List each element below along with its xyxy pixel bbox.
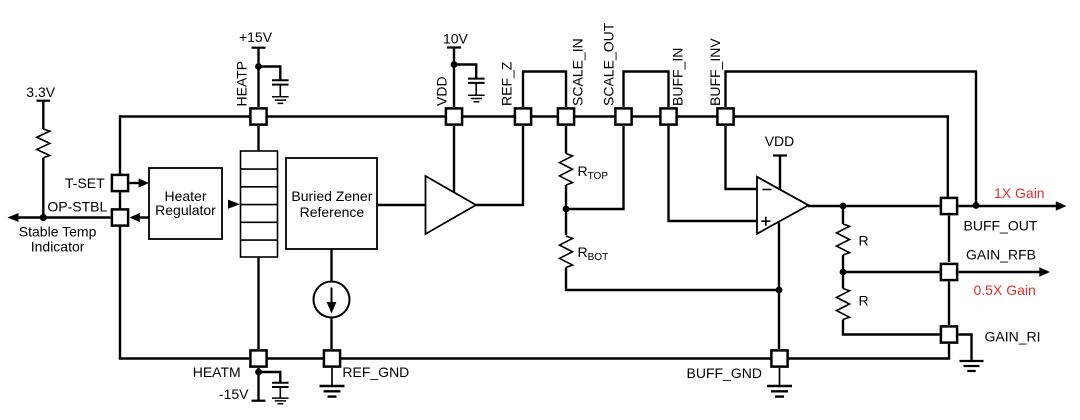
- svg-text:R: R: [859, 233, 869, 249]
- wire right border BUFF_OUT to GAIN_RFB: [948, 216, 950, 263]
- svg-text:HEATM: HEATM: [193, 364, 241, 380]
- ground below BUFF_GND: [767, 368, 792, 397]
- op-amp plus sign: [761, 217, 770, 226]
- heater element (segmented resistor ladder): [241, 151, 278, 257]
- svg-text:R: R: [859, 293, 869, 309]
- capacitor C3 (HEATM bypass): [272, 383, 289, 404]
- svg-text:SCALE_OUT: SCALE_OUT: [601, 22, 617, 106]
- wire REF_Z over to SCALE_IN: [523, 72, 566, 108]
- junction node 10V/C2: [451, 61, 458, 68]
- capacitor C1 (HEATP bypass): [272, 80, 289, 103]
- wire op-amp VDD stub: [779, 156, 781, 192]
- svg-text:-15V: -15V: [219, 386, 249, 402]
- wire IC boundary left border: [119, 115, 121, 358]
- wire right border GAIN_RFB to GAIN_RI: [948, 282, 950, 326]
- svg-text:SCALE_IN: SCALE_IN: [570, 38, 586, 106]
- power symbol 3.3V: [37, 100, 51, 102]
- junction node R1/R2 RFB tap: [840, 269, 847, 276]
- wire SCALE_IN to RTOP: [565, 126, 567, 154]
- resistor R_TOP zigzag: [560, 154, 573, 186]
- wire VDD cap branch: [454, 65, 476, 79]
- pin GAIN_RFB: [941, 264, 957, 280]
- svg-text:1X Gain: 1X Gain: [994, 185, 1045, 201]
- arrow heater regulator into heater element: [228, 200, 240, 209]
- svg-text:GAIN_RI: GAIN_RI: [985, 329, 1041, 345]
- wire current source to REF_GND: [330, 318, 332, 350]
- wire BUFF_INV to op-amp minus input: [726, 126, 758, 189]
- svg-text:10V: 10V: [443, 31, 469, 47]
- svg-text:REF_GND: REF_GND: [342, 364, 409, 380]
- wire RBOT to ground line: [566, 268, 779, 291]
- pin BUFF_INV: [717, 108, 733, 124]
- wire GAIN_RI to ground: [959, 335, 972, 361]
- svg-text:Reference: Reference: [300, 204, 365, 220]
- wire HEATP to heater element: [257, 126, 259, 151]
- wire GAIN_RFB output: [959, 271, 1041, 273]
- svg-text:T-SET: T-SET: [65, 175, 105, 191]
- pin BUFF_GND: [771, 350, 787, 366]
- junction node op-amp output / R1: [840, 203, 847, 210]
- resistor R_BOT zigzag: [560, 236, 573, 267]
- svg-text:BUFF_IN: BUFF_IN: [670, 48, 686, 106]
- junction node 3.3V resistor / OP-STBL line: [40, 214, 47, 221]
- svg-text:BUFF_OUT: BUFF_OUT: [964, 218, 1038, 234]
- wire IC boundary top rail and right drop to BUFF_OUT: [120, 117, 948, 197]
- wire 10V to VDD pin: [453, 48, 455, 108]
- wire VDD pin to buffer amp: [453, 126, 455, 193]
- wire BUFF_OUT output: [959, 205, 1058, 207]
- pin T-SET: [112, 175, 128, 191]
- wire resistor to OP-STBL line: [42, 158, 44, 218]
- power symbol -15V: [252, 400, 266, 402]
- power symbol +15V: [252, 47, 266, 49]
- junction node +15V/C1: [255, 63, 262, 70]
- wire RFB tap to R2: [842, 272, 844, 289]
- svg-text:GAIN_RFB: GAIN_RFB: [966, 247, 1036, 263]
- capacitor C2 (VDD bypass): [468, 79, 485, 102]
- pin SCALE_IN: [558, 108, 574, 124]
- buffer amplifier A1: [426, 176, 477, 234]
- junction node HEATM/-15V/C3: [255, 369, 262, 376]
- svg-text:HEATP: HEATP: [233, 61, 249, 107]
- ground at GAIN_RI: [960, 361, 984, 371]
- svg-text:Regulator: Regulator: [155, 202, 216, 218]
- junction node scale divider tap: [563, 206, 570, 213]
- junction node RBOT/op-amp gnd: [776, 287, 783, 294]
- resistor R2 zigzag: [837, 289, 850, 320]
- wire op-amp ground stub to BUFF_GND: [778, 223, 780, 350]
- pin SCALE_OUT: [615, 108, 631, 124]
- svg-text:VDD: VDD: [434, 76, 450, 106]
- svg-text:+15V: +15V: [239, 29, 273, 45]
- arrow GAIN_RFB output (right): [1039, 267, 1050, 276]
- svg-text:Indicator: Indicator: [31, 239, 85, 255]
- wire HEATM to -15V: [257, 368, 259, 401]
- pin BUFF_OUT: [941, 198, 957, 214]
- pin HEATP: [250, 108, 266, 124]
- arrow T-SET into heater regulator: [139, 178, 149, 187]
- buried zener reference block U2: [286, 158, 377, 249]
- pin GAIN_RI: [941, 326, 957, 342]
- svg-text:BUFF_GND: BUFF_GND: [687, 365, 762, 381]
- wire 3.3V to resistor: [42, 101, 44, 129]
- wire SCALE_OUT over to BUFF_IN: [624, 72, 669, 108]
- wire output to R1: [842, 206, 844, 224]
- svg-text:VDD: VDD: [765, 133, 795, 149]
- wire heater regulator to OP-STBL: [140, 216, 150, 218]
- svg-text:0.5X Gain: 0.5X Gain: [974, 282, 1036, 298]
- op-amp A2: [757, 177, 809, 234]
- wire HEATM cap branch: [259, 372, 281, 383]
- arrow stable temp indicator (left): [8, 213, 19, 222]
- wire T-SET to heater regulator: [130, 182, 141, 184]
- wire RFB tap to GAIN_RFB pin: [843, 271, 940, 273]
- resistor R1 zigzag: [837, 224, 850, 255]
- svg-text:RTOP: RTOP: [578, 163, 609, 182]
- pin HEATM: [250, 350, 266, 366]
- arrow heater regulator into OP-STBL: [130, 213, 140, 222]
- wire zener to current source: [330, 249, 332, 282]
- wire RTOP to tap node: [565, 185, 567, 235]
- svg-text:Buried Zener: Buried Zener: [291, 188, 372, 204]
- power symbol VDD (op-amp): [773, 154, 787, 156]
- wire HEATP cap branch: [259, 67, 281, 81]
- wire IC boundary bottom rail up to GAIN_RI: [119, 344, 949, 359]
- wire BUFF_IN to op-amp plus input: [669, 126, 758, 221]
- wire heater element to HEATM: [257, 257, 259, 349]
- wire OP-STBL to stable temp indicator arrow: [17, 216, 111, 218]
- svg-text:RBOT: RBOT: [578, 244, 609, 263]
- wire op-amp output to BUFF_OUT: [808, 205, 940, 207]
- svg-text:3.3V: 3.3V: [26, 84, 55, 100]
- wire tap to SCALE_OUT: [566, 126, 624, 209]
- arrow BUFF_OUT output (right): [1056, 201, 1067, 210]
- svg-text:OP-STBL: OP-STBL: [47, 199, 107, 215]
- svg-text:Stable Temp: Stable Temp: [19, 224, 97, 240]
- pin VDD: [446, 108, 462, 124]
- heater regulator block U1: [149, 168, 222, 239]
- op-amp minus sign: [763, 189, 772, 191]
- wire zener output to buffer: [377, 204, 426, 206]
- wire BUFF_INV feedback to output: [726, 72, 977, 206]
- resistor R_EXT on 3.3V (zigzag): [37, 129, 50, 158]
- wire buffer output to REF_Z: [476, 126, 523, 205]
- pin REF_Z: [515, 108, 531, 124]
- svg-text:REF_Z: REF_Z: [499, 61, 515, 106]
- pin BUFF_IN: [660, 108, 676, 124]
- ground below REF_GND: [320, 368, 345, 397]
- wire R1 to RFB tap: [842, 255, 844, 272]
- pin OP-STBL: [112, 209, 128, 225]
- pin REF_GND: [324, 350, 340, 366]
- junction node feedback on output: [973, 202, 980, 209]
- svg-text:BUFF_INV: BUFF_INV: [707, 38, 723, 106]
- wire +15V to HEATP: [257, 48, 259, 107]
- power symbol 10V: [447, 46, 461, 48]
- current source I1: [314, 282, 350, 318]
- wire R2 to GAIN_RI pin: [843, 320, 940, 335]
